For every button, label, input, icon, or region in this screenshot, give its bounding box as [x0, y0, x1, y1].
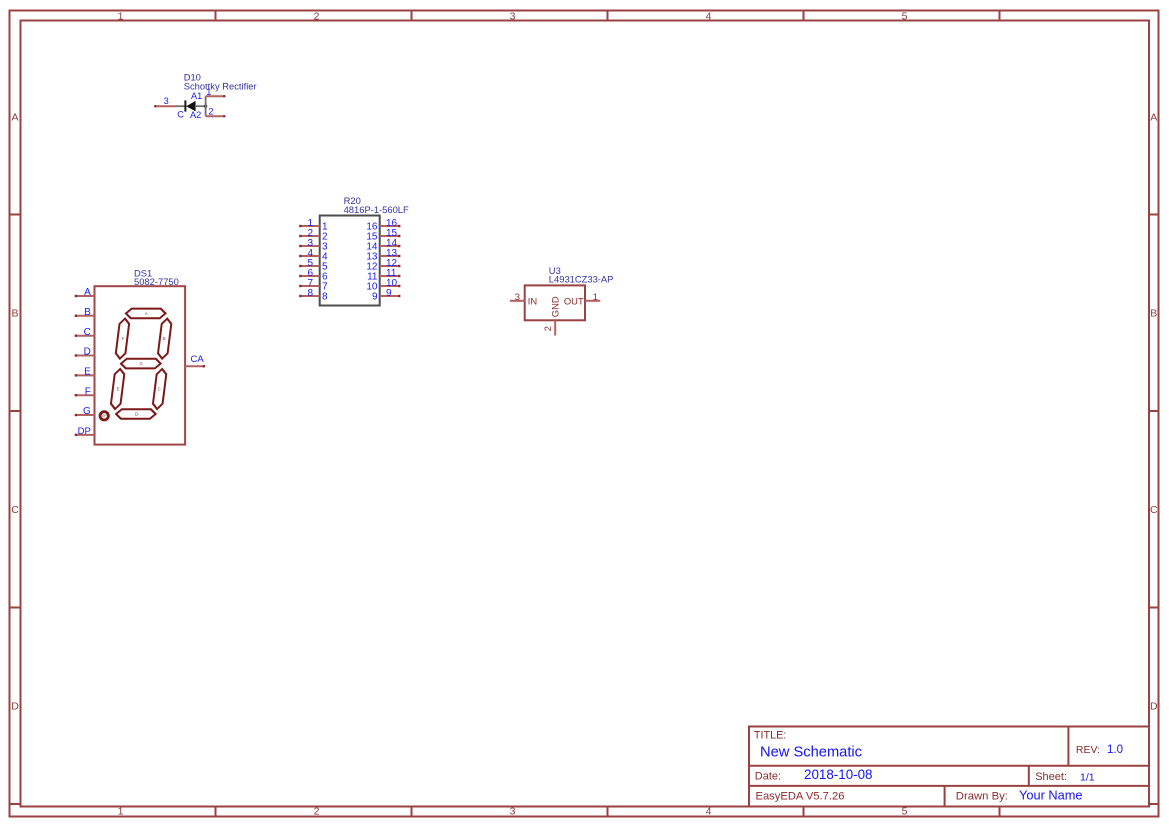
pin 2 end dot	[223, 115, 225, 117]
svg-text:8: 8	[322, 292, 328, 303]
svg-text:B: B	[1150, 308, 1157, 320]
svg-text:C: C	[158, 386, 161, 391]
svg-text:Sheet:: Sheet:	[1035, 771, 1067, 783]
segment B	[157, 319, 171, 359]
svg-text:GND: GND	[549, 296, 560, 317]
svg-text:2: 2	[542, 326, 553, 331]
svg-text:1: 1	[118, 806, 124, 818]
segment E	[110, 369, 124, 409]
svg-text:B: B	[11, 308, 18, 320]
svg-text:C: C	[11, 504, 19, 516]
svg-text:9: 9	[372, 292, 378, 303]
wire R20 pin 13 stub	[380, 255, 401, 257]
wire pin 3 stub	[155, 105, 175, 107]
svg-text:DP: DP	[102, 414, 108, 418]
svg-text:OUT: OUT	[564, 295, 584, 306]
decimal point DP	[100, 412, 108, 420]
wire R20 pin 6 stub	[299, 275, 320, 277]
svg-text:D: D	[135, 411, 138, 416]
svg-text:A: A	[145, 311, 148, 316]
DS1 seven-segment digit	[109, 309, 172, 419]
svg-text:DP: DP	[78, 426, 91, 437]
diode triangle	[186, 101, 195, 112]
svg-text:TITLE:: TITLE:	[754, 730, 786, 742]
svg-text:CA: CA	[191, 354, 205, 365]
svg-text:REV:: REV:	[1076, 744, 1100, 756]
svg-text:G: G	[83, 406, 91, 417]
svg-text:3: 3	[510, 806, 516, 818]
wire R20 pin 16 stub	[380, 225, 401, 227]
segment A	[125, 309, 166, 319]
wire R20 pin 12 stub	[380, 265, 401, 267]
wire R20 pin 1 stub	[299, 225, 320, 227]
wire R20 pin 10 stub	[380, 285, 401, 287]
pin 1 end dot	[223, 95, 225, 97]
wire R20 pin 8 stub	[299, 295, 320, 297]
svg-text:3: 3	[164, 96, 169, 106]
svg-text:Your Name: Your Name	[1019, 787, 1083, 802]
svg-text:D: D	[84, 347, 91, 358]
svg-text:EasyEDA V5.7.26: EasyEDA V5.7.26	[756, 790, 845, 802]
junction dot anodes	[204, 105, 207, 108]
wire DS1 pin DP stub	[75, 434, 95, 436]
svg-text:E: E	[84, 367, 91, 378]
wire anode vertical	[205, 96, 207, 116]
wire R20 pin 4 stub	[299, 255, 320, 257]
wire R20 pin 5 stub	[299, 265, 320, 267]
voltage regulator U3	[510, 265, 613, 336]
wire anode lead	[195, 105, 206, 107]
svg-text:A: A	[1150, 112, 1157, 124]
R20 body rectangle	[320, 216, 380, 306]
segment D	[116, 409, 157, 419]
wire DS1 pin B stub	[75, 315, 95, 317]
svg-text:Drawn By:: Drawn By:	[956, 790, 1008, 802]
diode D10 (Schottky rectifier, common cathode dual anode)	[154, 72, 256, 121]
svg-text:C: C	[1150, 504, 1158, 516]
seven-segment display DS1	[75, 267, 205, 444]
wire DS1 pin E stub	[75, 374, 95, 376]
diode cathode bar	[184, 100, 186, 111]
svg-text:2018-10-08: 2018-10-08	[804, 767, 873, 782]
svg-text:4: 4	[706, 806, 712, 818]
svg-text:B: B	[84, 307, 91, 318]
wire pin 1 stub A1	[206, 95, 225, 97]
svg-text:A: A	[84, 287, 91, 298]
svg-text:C: C	[177, 109, 184, 119]
svg-text:4816P-1-560LF: 4816P-1-560LF	[344, 204, 409, 215]
svg-text:A1: A1	[191, 91, 202, 101]
wire R20 pin 3 stub	[299, 245, 320, 247]
pin 3 end dot	[154, 105, 156, 107]
wire R20 pin 9 stub	[380, 295, 401, 297]
svg-text:B: B	[163, 336, 166, 341]
wire R20 pin 7 stub	[299, 285, 320, 287]
wire DS1 pin CA stub	[185, 365, 205, 367]
svg-text:8: 8	[307, 288, 313, 299]
svg-text:2: 2	[208, 106, 213, 116]
wire R20 pin 14 stub	[380, 245, 401, 247]
svg-text:1: 1	[118, 10, 124, 22]
segment C	[152, 369, 166, 409]
segment letters	[117, 311, 166, 416]
segment F	[115, 319, 129, 359]
svg-text:A2: A2	[190, 110, 201, 120]
svg-text:D: D	[11, 701, 19, 713]
wire R20 pin 2 stub	[299, 235, 320, 237]
svg-text:Schottky Rectifier: Schottky Rectifier	[184, 80, 257, 91]
svg-text:4: 4	[706, 10, 712, 22]
wire pin 2 stub GND	[554, 320, 556, 335]
svg-text:A: A	[11, 112, 18, 124]
svg-text:2: 2	[314, 10, 320, 22]
svg-text:D: D	[1150, 701, 1158, 713]
wire pin 2 stub A2	[206, 115, 225, 117]
wire DS1 pin F stub	[75, 394, 95, 396]
wire DS1 pin C stub	[75, 335, 95, 337]
svg-text:1: 1	[206, 87, 211, 97]
wire pin 1 stub OUT	[585, 300, 600, 302]
svg-text:E: E	[117, 386, 120, 391]
svg-text:L4931CZ33-AP: L4931CZ33-AP	[549, 274, 614, 285]
wire DS1 pin A stub	[75, 295, 95, 297]
U3 body rectangle	[525, 285, 585, 320]
svg-text:IN: IN	[528, 295, 537, 306]
resistor network R20	[299, 195, 409, 306]
svg-text:Date:: Date:	[755, 770, 781, 782]
wire R20 pin 11 stub	[380, 275, 401, 277]
wire DS1 pin G stub	[75, 414, 95, 416]
svg-text:5: 5	[902, 10, 908, 22]
TITLE-BLOCK	[749, 727, 1149, 807]
wire R20 pin 15 stub	[380, 235, 401, 237]
svg-text:1: 1	[593, 291, 598, 302]
svg-text:C: C	[84, 327, 91, 338]
wire pin 3 stub IN	[510, 300, 525, 302]
svg-text:3: 3	[510, 10, 516, 22]
svg-text:New Schematic: New Schematic	[760, 745, 862, 761]
svg-text:3: 3	[515, 291, 520, 302]
wire cathode lead	[175, 105, 187, 107]
svg-text:1.0: 1.0	[1107, 744, 1123, 756]
wire DS1 pin D stub	[75, 354, 95, 356]
DS1 body rectangle	[95, 286, 186, 444]
svg-text:9: 9	[386, 288, 392, 299]
svg-text:1/1: 1/1	[1080, 771, 1095, 783]
svg-text:F: F	[122, 336, 125, 341]
svg-text:F: F	[85, 386, 91, 397]
svg-text:2: 2	[314, 806, 320, 818]
segment G	[121, 359, 162, 369]
